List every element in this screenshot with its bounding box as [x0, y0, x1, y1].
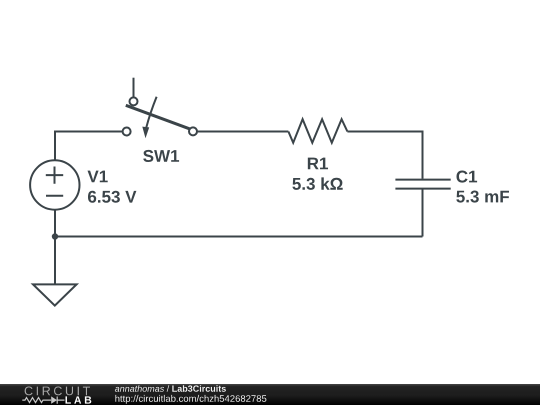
- switch SW1 left terminal circle: [123, 128, 131, 136]
- wire: switch top stub: [133, 78, 135, 98]
- V1 minus sign: [46, 195, 63, 197]
- wire: V1 bottom lead: [54, 210, 56, 237]
- wire: V1 top lead up and right to switch left terminal: [55, 132, 123, 161]
- value 6.53 V: [88, 191, 136, 203]
- switch SW1 arrow arc: [146, 97, 156, 128]
- logo CIRCUIT text: [25, 387, 90, 396]
- switch SW1 right terminal circle: [189, 127, 197, 135]
- capacitor C1 bottom plate: [395, 188, 450, 190]
- label R1: [308, 158, 328, 170]
- label C1: [457, 171, 478, 183]
- switch SW1 lever: [126, 105, 191, 129]
- footer credit line 1: [115, 385, 226, 392]
- value 5.3 kOhm: [292, 177, 342, 190]
- logo LAB text: [66, 396, 92, 403]
- resistor R1: [288, 119, 347, 143]
- wire: switch right terminal to resistor: [197, 131, 288, 133]
- capacitor C1 top plate: [395, 179, 450, 181]
- wire: resistor to top-right corner down to capacitor: [347, 132, 422, 179]
- switch SW1 top contact circle: [130, 97, 138, 105]
- label V1: [88, 171, 108, 183]
- ground: [33, 284, 77, 305]
- switch SW1 arrow head: [142, 127, 149, 139]
- value 5.3 mF: [456, 191, 509, 203]
- logo schematic diode: [51, 396, 57, 403]
- V1 plus sign: [46, 167, 63, 184]
- wire: ground stem: [54, 237, 56, 285]
- footer url line 2: [115, 395, 266, 404]
- label SW1: [143, 150, 179, 162]
- logo schematic squiggle: resistor: [22, 397, 64, 404]
- junction node (bottom-left): [52, 233, 58, 239]
- wire: capacitor bottom lead down to bottom rail: [422, 190, 424, 237]
- voltage source V1 body: [30, 160, 79, 209]
- wire: bottom rail: [55, 236, 423, 238]
